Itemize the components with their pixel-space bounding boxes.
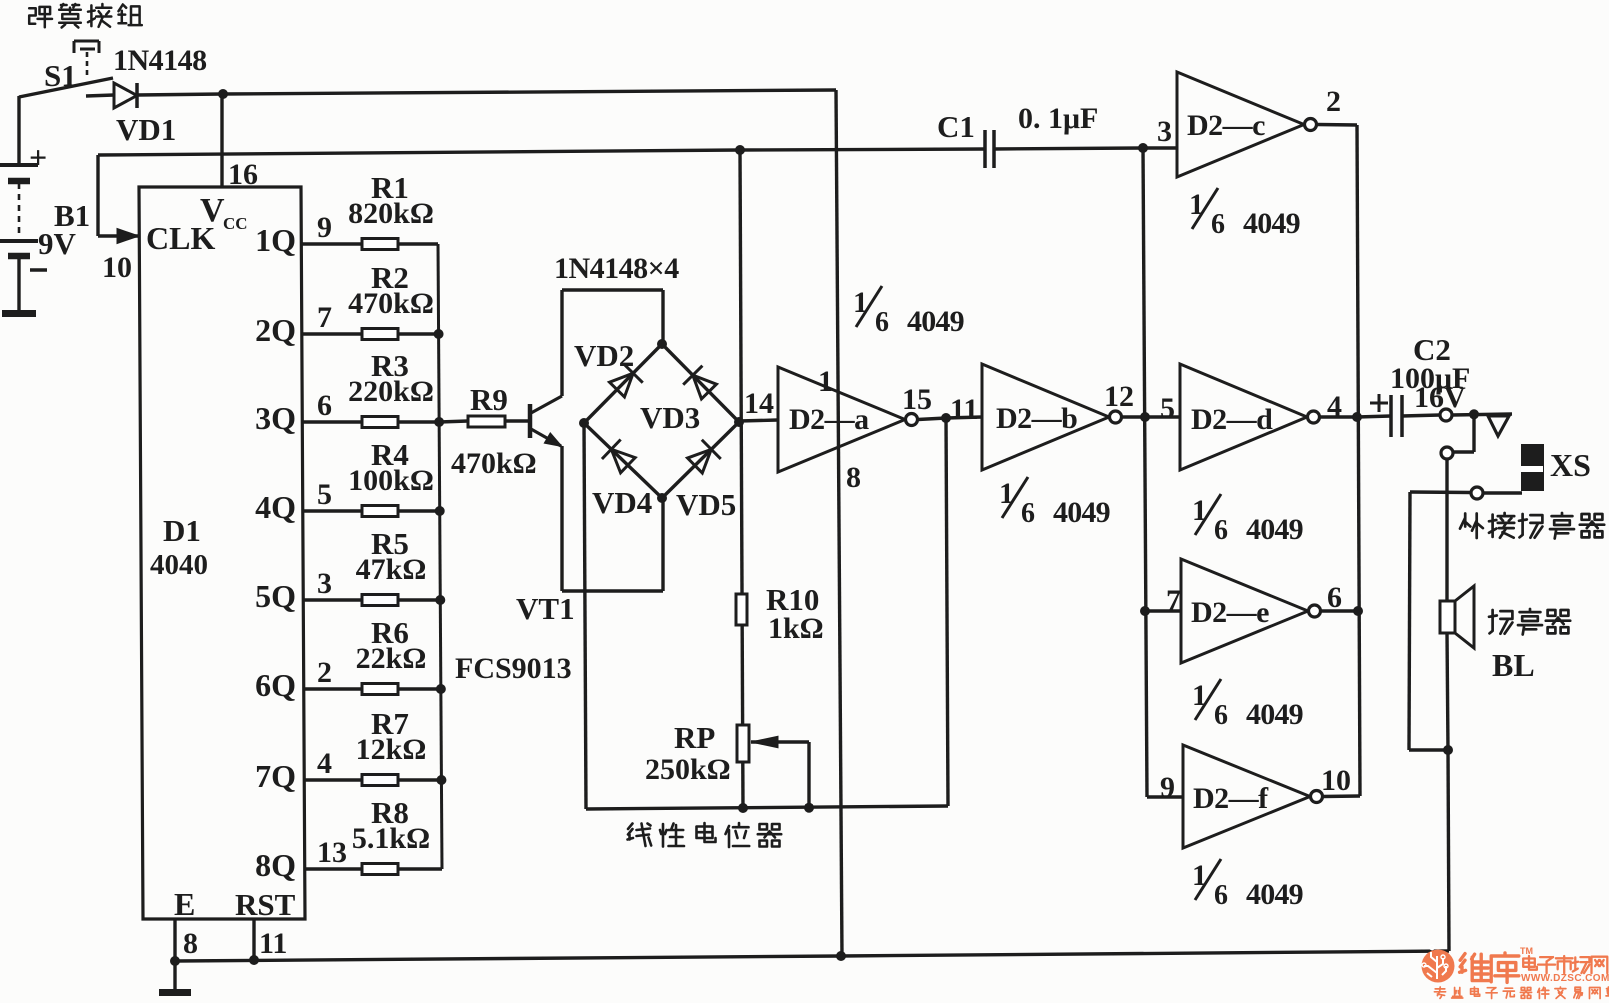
svg-text:13: 13 <box>317 836 347 869</box>
svg-text:VT1: VT1 <box>516 591 575 626</box>
svg-text:S1: S1 <box>44 58 77 93</box>
svg-text:6: 6 <box>1327 581 1342 614</box>
svg-text:4: 4 <box>317 747 332 780</box>
svg-text:6: 6 <box>317 389 332 422</box>
svg-text:1: 1 <box>818 365 833 398</box>
svg-text:FCS9013: FCS9013 <box>455 652 572 685</box>
svg-text:D2—f: D2—f <box>1193 782 1269 815</box>
svg-text:4Q: 4Q <box>255 489 296 525</box>
svg-text:2: 2 <box>317 656 332 689</box>
svg-text:XS: XS <box>1550 447 1591 483</box>
svg-text:7Q: 7Q <box>255 758 296 794</box>
svg-text:6: 6 <box>875 307 889 338</box>
svg-text:E: E <box>174 886 195 922</box>
svg-text:16V: 16V <box>1414 381 1466 414</box>
svg-text:11: 11 <box>950 393 978 426</box>
svg-text:BL: BL <box>1492 647 1535 683</box>
svg-text:R9: R9 <box>470 382 508 417</box>
svg-text:6: 6 <box>1214 700 1228 731</box>
svg-text:CLK: CLK <box>146 220 215 256</box>
svg-text:8Q: 8Q <box>255 847 296 883</box>
svg-text:5Q: 5Q <box>255 578 296 614</box>
svg-text:CC: CC <box>223 214 248 233</box>
svg-text:9: 9 <box>1160 771 1175 804</box>
svg-text:D2—e: D2—e <box>1191 596 1269 629</box>
svg-text:820kΩ: 820kΩ <box>348 197 434 230</box>
svg-text:1N4148×4: 1N4148×4 <box>554 252 679 285</box>
svg-text:11: 11 <box>259 927 287 960</box>
svg-text:2: 2 <box>1326 85 1341 118</box>
svg-text:14: 14 <box>744 387 774 420</box>
svg-text:2Q: 2Q <box>255 312 296 348</box>
svg-text:4040: 4040 <box>150 549 208 581</box>
svg-text:3Q: 3Q <box>255 400 296 436</box>
svg-text:RST: RST <box>235 887 296 922</box>
svg-text:470kΩ: 470kΩ <box>451 447 537 480</box>
svg-text:4049: 4049 <box>1246 878 1303 911</box>
svg-text:4049: 4049 <box>1246 698 1303 731</box>
svg-text:6: 6 <box>1021 498 1035 529</box>
svg-text:5: 5 <box>317 478 332 511</box>
svg-text:3: 3 <box>317 567 332 600</box>
svg-text:6Q: 6Q <box>255 667 296 703</box>
svg-text:12kΩ: 12kΩ <box>356 733 427 766</box>
svg-text:4049: 4049 <box>907 305 964 338</box>
svg-text:WWW.DZSC.COM: WWW.DZSC.COM <box>1521 973 1609 984</box>
svg-text:8: 8 <box>846 461 861 494</box>
svg-text:9V: 9V <box>38 226 77 261</box>
svg-text:4049: 4049 <box>1246 513 1303 546</box>
svg-text:5.1kΩ: 5.1kΩ <box>352 822 430 855</box>
svg-text:6: 6 <box>1214 880 1228 911</box>
svg-text:22kΩ: 22kΩ <box>356 642 427 675</box>
svg-text:250kΩ: 250kΩ <box>645 753 731 786</box>
svg-text:D2—c: D2—c <box>1187 109 1265 142</box>
svg-text:VD2: VD2 <box>574 338 634 373</box>
svg-text:6: 6 <box>1214 515 1228 546</box>
svg-text:1kΩ: 1kΩ <box>768 612 824 645</box>
svg-text:220kΩ: 220kΩ <box>348 375 434 408</box>
svg-text:C1: C1 <box>937 109 975 144</box>
svg-text:VD4: VD4 <box>592 485 652 520</box>
svg-text:10: 10 <box>102 251 132 284</box>
svg-text:4049: 4049 <box>1243 207 1300 240</box>
svg-text:8: 8 <box>183 927 198 960</box>
svg-text:100kΩ: 100kΩ <box>348 464 434 497</box>
svg-text:VD3: VD3 <box>640 400 700 435</box>
svg-text:4049: 4049 <box>1053 496 1110 529</box>
svg-text:VD1: VD1 <box>116 112 176 147</box>
svg-text:D1: D1 <box>163 513 201 548</box>
svg-text:470kΩ: 470kΩ <box>348 287 434 320</box>
svg-text:RP: RP <box>674 720 715 755</box>
svg-text:D2—d: D2—d <box>1191 403 1273 436</box>
svg-text:1Q: 1Q <box>255 222 296 258</box>
svg-text:5: 5 <box>1160 392 1175 425</box>
svg-text:VD5: VD5 <box>676 487 736 522</box>
svg-text:D2—b: D2—b <box>996 402 1077 435</box>
svg-text:TM: TM <box>1520 946 1533 956</box>
svg-text:1N4148: 1N4148 <box>113 44 207 77</box>
svg-text:7: 7 <box>1166 584 1181 617</box>
svg-text:12: 12 <box>1104 380 1134 413</box>
svg-text:D2—a: D2—a <box>789 403 869 436</box>
svg-text:7: 7 <box>317 301 332 334</box>
svg-text:4: 4 <box>1327 390 1342 423</box>
svg-text:3: 3 <box>1157 115 1172 148</box>
svg-text:0. 1μF: 0. 1μF <box>1018 102 1098 135</box>
svg-text:+: + <box>29 139 47 175</box>
svg-text:10: 10 <box>1321 764 1351 797</box>
svg-text:16: 16 <box>228 158 258 191</box>
svg-text:15: 15 <box>902 383 932 416</box>
svg-text:6: 6 <box>1211 209 1225 240</box>
svg-text:9: 9 <box>317 211 332 244</box>
svg-text:47kΩ: 47kΩ <box>356 553 427 586</box>
